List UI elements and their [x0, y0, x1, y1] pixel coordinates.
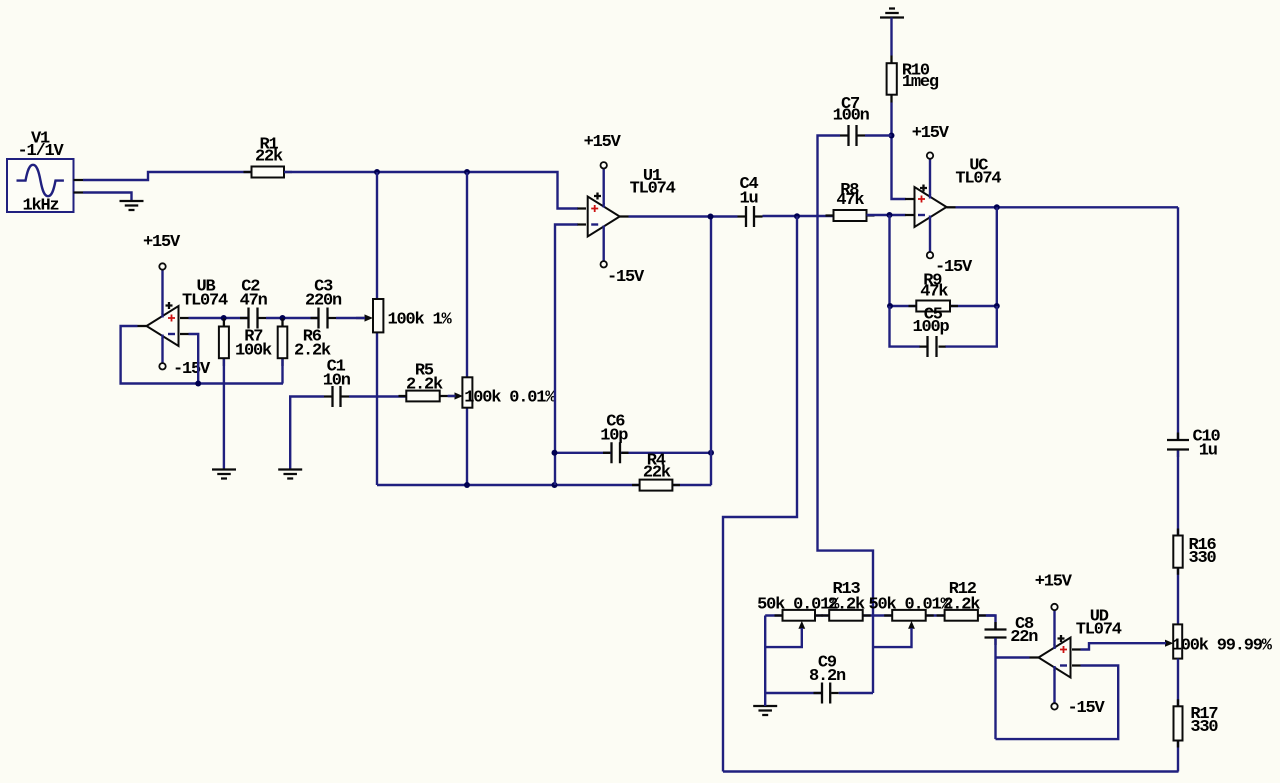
capacitor C7 [833, 95, 870, 146]
svg-text:50k 0.01%: 50k 0.01% [869, 596, 952, 615]
op-amp UD TL074 [1030, 573, 1122, 719]
wire UD output to C8 node [996, 656, 1030, 658]
svg-text:100n: 100n [833, 107, 870, 126]
potentiometer P1 100k 1% [356, 299, 453, 332]
svg-text:2.2k: 2.2k [406, 376, 443, 395]
svg-text:22k: 22k [255, 148, 283, 167]
wire C7 right to node [865, 134, 892, 136]
wire C3 to P1 arrow [336, 317, 365, 319]
svg-text:-1/1V: -1/1V [18, 142, 65, 161]
node bottom rail x=554.5 [552, 482, 558, 488]
svg-text:22n: 22n [1010, 628, 1038, 647]
svg-text:330: 330 [1190, 718, 1218, 737]
wire UB+ to C2 [189, 317, 248, 319]
ground (C9 / P3) [753, 706, 777, 715]
wire R12 to C8 [986, 616, 996, 630]
wire rail x=467 down through P2 to bottom rail [466, 172, 468, 485]
wire C6 row left [555, 452, 712, 454]
wire UC output to right rail [956, 206, 1179, 208]
wire UD inverting feedback loop [996, 666, 1119, 740]
wire C1 left to ground [290, 397, 324, 470]
inverted ground at R10 top [880, 9, 904, 18]
node UB feedback [195, 381, 201, 387]
svg-text:330: 330 [1189, 549, 1217, 568]
wire UB output feedback loop [121, 326, 283, 384]
bottom long rail [723, 770, 1179, 772]
svg-text:TL074: TL074 [630, 180, 676, 199]
node R10/C7 [889, 133, 895, 139]
svg-text:1kHz: 1kHz [23, 197, 59, 216]
node C4/R8 feedback takeoff [794, 213, 800, 219]
resistor R1 [244, 136, 293, 178]
node bottom rail x=467 [464, 482, 470, 488]
capacitor C1 [323, 358, 351, 408]
resistor R16 [1173, 529, 1216, 575]
capacitor C5 [890, 306, 997, 358]
svg-text:47k: 47k [836, 191, 864, 210]
potentiometer P3 50k 0.01% [757, 596, 840, 648]
svg-text:10n: 10n [323, 372, 351, 391]
svg-text:100k 99.99%: 100k 99.99% [1172, 637, 1273, 656]
resistor R9 [890, 272, 997, 312]
svg-text:100k 1%: 100k 1% [388, 311, 453, 330]
wire feedback loop down-left [723, 216, 797, 771]
svg-text:1u: 1u [1199, 442, 1217, 461]
node at x=467 on input rail [464, 169, 470, 175]
node R9 left [887, 303, 893, 309]
svg-text:TL074: TL074 [1076, 621, 1122, 640]
wire R13 network row [765, 614, 995, 616]
capacitor C10 [1167, 428, 1221, 461]
wire V1 to ground [83, 193, 132, 202]
resistor R8 [826, 181, 875, 221]
svg-text:47k: 47k [920, 283, 948, 302]
wire R10 down to UC+ input [892, 103, 906, 200]
svg-text:2.2k: 2.2k [943, 596, 980, 615]
op-amp U1 TL074 [578, 133, 676, 287]
capacitor C6 [600, 413, 628, 464]
svg-text:TL074: TL074 [182, 292, 228, 311]
resistor R13 [821, 580, 871, 621]
wire UC- node down to R9 left [888, 215, 890, 306]
wire R5 to P2 arrow [448, 395, 456, 397]
voltage source V1 [7, 130, 83, 216]
svg-text:2.2k: 2.2k [828, 596, 865, 615]
wire C2 to C3 [266, 317, 318, 319]
potentiometer P5 100k 99.99% [1165, 624, 1273, 658]
node at x=377 on input rail [374, 169, 380, 175]
node C6 row left [552, 450, 558, 456]
wire P3 left rail down to ground [764, 616, 766, 694]
resistor R12 [937, 580, 986, 621]
svg-text:-15V: -15V [173, 360, 211, 379]
svg-text:10p: 10p [600, 427, 628, 446]
node R7 top [221, 315, 227, 321]
svg-text:100p: 100p [913, 318, 950, 337]
wire C7 left down to R13 network [818, 136, 874, 694]
capacitor C9 [809, 654, 846, 704]
svg-text:100k 0.01%: 100k 0.01% [464, 389, 556, 408]
svg-text:1meg: 1meg [902, 73, 939, 92]
op-amp UB TL074 [138, 233, 229, 379]
wire U1 inverting input down to bottom rail [555, 225, 578, 486]
wire V1 to R1 [83, 172, 252, 180]
ground (V1) [120, 201, 144, 210]
capacitor C8 [985, 615, 1039, 647]
potentiometer P2 100k 0.01% [448, 377, 556, 407]
svg-text:2.2k: 2.2k [294, 342, 331, 361]
wire rail x=377 down through P1 to bottom rail [376, 172, 378, 485]
wire C4 to R8 [763, 215, 834, 217]
potentiometer P4 50k 0.01% [869, 596, 952, 648]
resistor R6 [278, 319, 331, 384]
svg-text:+15V: +15V [912, 124, 950, 143]
wire U1 output rail x=711 down to R4/C6 [710, 217, 712, 486]
svg-text:-15V: -15V [607, 268, 645, 287]
wire U1 output to C4 [629, 215, 738, 217]
svg-text:+15V: +15V [143, 233, 181, 252]
ground (C1) [278, 470, 302, 479]
capacitor C3 [305, 278, 342, 329]
resistor R5 [399, 362, 448, 402]
svg-text:+15V: +15V [1035, 573, 1073, 592]
svg-text:-15V: -15V [1068, 699, 1106, 718]
svg-text:TL074: TL074 [955, 170, 1001, 189]
wire P5 down through R17 to bottom rail [1177, 659, 1179, 772]
svg-text:+15V: +15V [584, 133, 622, 152]
bottom rail of loop filter [377, 484, 711, 486]
op-amp UC TL074 [905, 124, 1001, 277]
wire C9 right to rail [839, 692, 873, 694]
capacitor C4 [738, 175, 763, 227]
wire UC output node down to R9 right [996, 207, 998, 306]
ground (R7) [212, 470, 236, 479]
wire ground to R10 [890, 18, 892, 56]
resistor R4 [632, 452, 680, 491]
wire right rail down to C10 [1177, 207, 1179, 439]
svg-text:100k: 100k [235, 342, 272, 361]
wire UB inverting input to loop [189, 334, 199, 384]
svg-text:220n: 220n [305, 292, 342, 311]
wire C10 to R16 to P5 [1177, 451, 1179, 625]
svg-text:22k: 22k [643, 464, 671, 483]
svg-text:1u: 1u [740, 190, 758, 209]
resistor R10 [887, 56, 939, 103]
wire C8 down to UD output node [994, 638, 996, 739]
node C6 row right [708, 450, 714, 456]
node UC output [994, 204, 1000, 210]
wire C1 to R5 [349, 395, 406, 397]
node R8/UC- [887, 212, 893, 218]
wire R1 to U1 noninverting input [284, 172, 578, 209]
capacitor C2 [240, 278, 268, 329]
svg-text:47n: 47n [240, 292, 268, 311]
svg-text:8.2n: 8.2n [809, 667, 846, 686]
node R9 right [994, 303, 1000, 309]
wire UD noninverting to P5 arrow [1081, 643, 1167, 649]
resistor R17 [1174, 699, 1219, 747]
node R6 top [280, 315, 286, 321]
node U1 output / rail [708, 214, 714, 220]
resistor R7 [219, 319, 272, 470]
wire ground row to C9 [765, 693, 821, 706]
wire R8 to UC inverting input [867, 214, 906, 216]
